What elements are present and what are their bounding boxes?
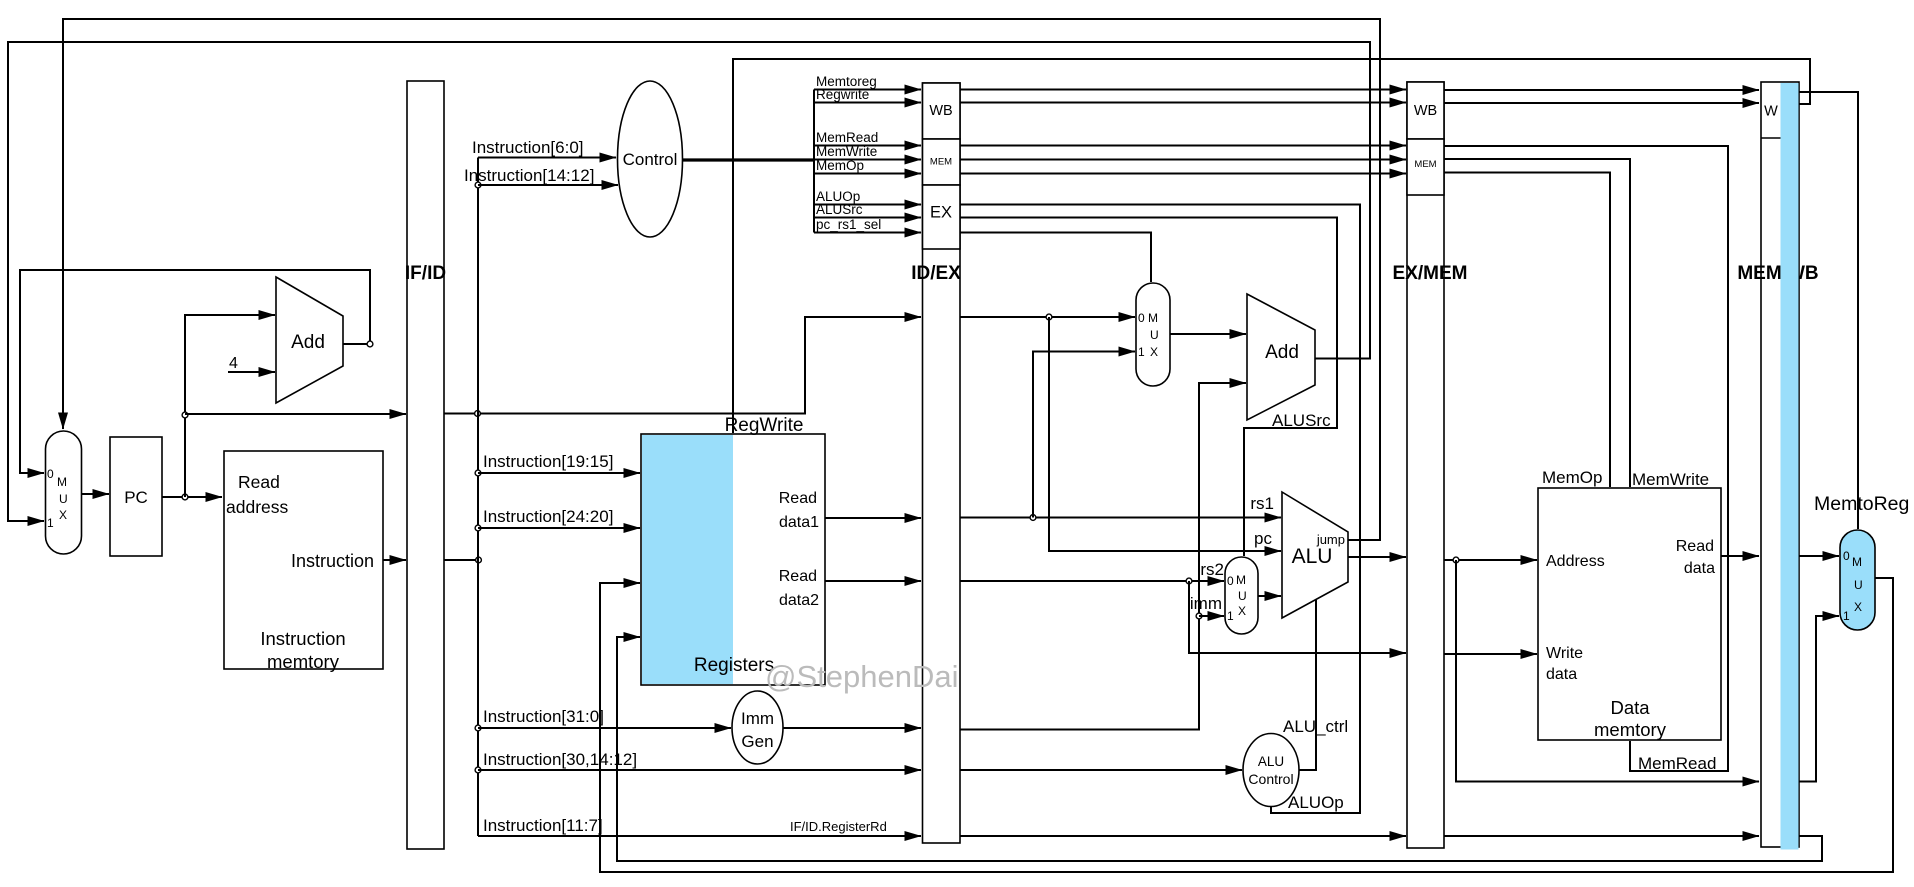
svg-text:Instruction: Instruction xyxy=(291,551,374,571)
control unit ALUControl xyxy=(1243,734,1299,807)
wire rs2 down to EX/MEM write data xyxy=(1189,581,1406,653)
wire PC+4 loop (Add output to PC mux input 0) xyxy=(20,270,370,473)
svg-text:IF/ID: IF/ID xyxy=(405,263,446,284)
wire Instruction[24:20] to Registers xyxy=(478,527,640,529)
svg-text:W: W xyxy=(1764,104,1778,120)
svg-text:Add: Add xyxy=(1265,342,1299,363)
mux PC-select (MUX1) xyxy=(46,431,82,554)
svg-text:ALU: ALU xyxy=(1292,545,1333,568)
wire MemRead control to data memory bottom xyxy=(1444,146,1728,771)
memory InstructionMemory xyxy=(224,451,383,669)
wire pc down to ALU xyxy=(1049,317,1281,551)
svg-text:ALUSrc: ALUSrc xyxy=(816,202,863,217)
wire instruction from IF/ID to bus xyxy=(444,559,478,561)
svg-text:EX/MEM: EX/MEM xyxy=(1393,263,1468,284)
svg-text:X: X xyxy=(1238,604,1246,618)
svg-text:Add: Add xyxy=(291,332,325,353)
wire write data to data memory xyxy=(1444,653,1537,655)
svg-text:WB: WB xyxy=(1414,103,1437,119)
svg-text:MemRead: MemRead xyxy=(816,130,878,145)
wire rd writeback xyxy=(617,637,1822,861)
svg-text:MEM: MEM xyxy=(1414,159,1436,170)
node bus tap 14:12 xyxy=(475,182,481,188)
svg-text:1: 1 xyxy=(1138,345,1145,359)
wire EX/MEM WB out2 to MEM/WB xyxy=(1444,102,1759,104)
wire branch-target feedback (Add output to PC mux input 1) xyxy=(8,42,1370,521)
wire Read data1 to ID/EX xyxy=(825,517,921,519)
svg-text:data2: data2 xyxy=(779,592,819,609)
node bus tap 31:0 xyxy=(475,725,481,731)
svg-text:Regwrite: Regwrite xyxy=(816,87,869,102)
svg-text:Instruction: Instruction xyxy=(260,628,345,649)
svg-text:ID/EX: ID/EX xyxy=(911,263,961,284)
memory DataMemory xyxy=(1538,488,1721,740)
wire ID/EX MEM out2 to EX/MEM xyxy=(960,159,1406,161)
node PC branch to IF/ID xyxy=(182,412,188,418)
svg-text:Data: Data xyxy=(1610,697,1650,718)
wire PC to IF/ID xyxy=(185,413,406,415)
svg-text:Instruction[31:0]: Instruction[31:0] xyxy=(483,707,604,726)
wire Instruction[6:0] to Control xyxy=(478,157,616,159)
svg-text:Read: Read xyxy=(1676,538,1714,555)
svg-text:memtory: memtory xyxy=(267,651,340,672)
wire MUX1 output to PC xyxy=(82,493,110,495)
svg-text:Read: Read xyxy=(779,568,817,585)
svg-text:MemWrite: MemWrite xyxy=(1632,470,1709,489)
svg-text:M: M xyxy=(1148,311,1158,325)
svg-text:memtory: memtory xyxy=(1594,719,1667,740)
svg-text:rs1: rs1 xyxy=(1250,494,1274,513)
svg-text:Read: Read xyxy=(779,490,817,507)
svg-text:X: X xyxy=(59,508,67,522)
wire PC up to Add1 xyxy=(185,315,275,497)
wire rs1 from ID/EX to ALU xyxy=(960,517,1281,519)
wire Control output bus xyxy=(683,158,815,161)
wire ImmGen output to ID/EX xyxy=(783,727,921,729)
svg-text:Write: Write xyxy=(1546,645,1583,662)
mux MemtoReg xyxy=(1840,530,1875,630)
svg-text:data: data xyxy=(1546,666,1577,683)
wire Instruction[14:12] to Control xyxy=(478,184,618,186)
wire ALU_ctrl to ALU xyxy=(1299,600,1316,770)
node rs1 junction xyxy=(1030,515,1036,521)
svg-text:0: 0 xyxy=(1843,549,1850,563)
svg-text:address: address xyxy=(226,497,289,517)
svg-text:M: M xyxy=(1236,573,1246,587)
svg-text:0: 0 xyxy=(1227,574,1234,588)
control unit Control xyxy=(618,81,683,237)
svg-text:MemWrite: MemWrite xyxy=(816,144,877,159)
node pc wire crossing instruction bus xyxy=(475,411,481,417)
svg-text:Instruction[6:0]: Instruction[6:0] xyxy=(472,138,584,157)
svg-text:Instruction[14:12]: Instruction[14:12] xyxy=(464,166,594,185)
wire Instruction[30,14:12] to ID/EX xyxy=(478,769,921,771)
node bus tap 19:15 xyxy=(475,470,481,476)
wire ALUSrc into ID/EX xyxy=(814,217,921,219)
wire Instruction[11:7] to ID/EX xyxy=(478,835,921,837)
mux rs2/imm select xyxy=(1225,557,1258,634)
node bus tap 30-14:12 xyxy=(475,767,481,773)
wire read data to MEM/WB xyxy=(1721,555,1759,557)
svg-text:Address: Address xyxy=(1546,553,1605,570)
wire pc_rs1_sel into ID/EX xyxy=(814,232,921,234)
svg-text:0: 0 xyxy=(1138,311,1145,325)
wire MemOp to data memory xyxy=(1444,173,1610,488)
wire Read data2 to ID/EX xyxy=(825,580,921,582)
wire read data to MemtoReg mux0 xyxy=(1799,555,1839,557)
section ID/EX WB box xyxy=(923,83,961,139)
wire constant 4 to Add1 xyxy=(228,371,275,373)
register ID/EX bar xyxy=(923,83,961,843)
svg-text:WB: WB xyxy=(929,103,952,119)
wire MemWrite xyxy=(814,159,921,161)
svg-text:0: 0 xyxy=(47,467,54,481)
svg-text:Control: Control xyxy=(623,150,678,169)
wire EX/MEM WB out1 to MEM/WB xyxy=(1444,89,1759,91)
fill MEM/WB cyan stripe xyxy=(1781,83,1799,850)
wire pc through IF/ID to ID/EX xyxy=(444,317,921,414)
svg-text:pc: pc xyxy=(1254,529,1272,548)
section ID/EX MEM box xyxy=(923,139,961,185)
svg-text:ALU_ctrl: ALU_ctrl xyxy=(1283,717,1348,736)
wire pc_rs1_sel to pc mux select xyxy=(960,233,1151,283)
node Add1 output corner xyxy=(367,341,373,347)
wire Instruction[19:15] to Registers xyxy=(478,472,640,474)
svg-text:PC: PC xyxy=(124,488,148,507)
wire MemWrite to data memory xyxy=(1444,159,1630,487)
svg-text:data: data xyxy=(1684,560,1715,577)
svg-text:EX: EX xyxy=(930,204,952,222)
register PC xyxy=(110,437,162,556)
svg-text:Instruction[24:20]: Instruction[24:20] xyxy=(483,507,613,526)
register MEM/WB bar xyxy=(1761,82,1799,847)
svg-text:Imm: Imm xyxy=(741,709,774,728)
wire funct to ALU Control xyxy=(960,769,1242,771)
section EX/MEM WB box xyxy=(1407,82,1444,139)
svg-text:Read: Read xyxy=(238,472,280,492)
svg-text:X: X xyxy=(1854,600,1862,614)
svg-text:U: U xyxy=(59,492,68,506)
svg-text:1: 1 xyxy=(1843,609,1850,623)
svg-text:MEM: MEM xyxy=(930,157,952,168)
register IF/ID bar xyxy=(407,81,444,849)
svg-text:MEM/WB: MEM/WB xyxy=(1737,263,1818,284)
svg-text:RegWrite: RegWrite xyxy=(725,415,804,436)
svg-text:rs2: rs2 xyxy=(1200,560,1224,579)
svg-text:U: U xyxy=(1150,328,1159,342)
node address junction xyxy=(1453,557,1459,563)
wire ID/EX WB out2 to EX/MEM xyxy=(960,102,1406,104)
wire MemOp xyxy=(814,173,921,175)
node instruction bus junction xyxy=(476,557,482,563)
node bus tap 24:20 xyxy=(475,525,481,531)
svg-text:U: U xyxy=(1854,578,1863,592)
alu ALU xyxy=(1282,492,1348,618)
svg-text:MemRead: MemRead xyxy=(1638,754,1716,773)
node imm junction xyxy=(1196,613,1202,619)
section EX/MEM MEM box xyxy=(1407,139,1444,195)
svg-text:Instruction[11:7]: Instruction[11:7] xyxy=(483,816,603,835)
wire mux output writeback xyxy=(600,578,1893,872)
wire ALUSrc to imm mux select xyxy=(960,218,1337,557)
wire pc mux output to Add2 xyxy=(1170,333,1246,335)
unit ImmGen xyxy=(732,691,783,764)
node PC output junction xyxy=(182,494,188,500)
wire instruction bus vertical xyxy=(477,158,479,837)
register EX/MEM bar xyxy=(1407,82,1444,848)
wire Memtoreg xyxy=(814,89,921,91)
wire jump-target feedback (ALU jump to PC mux top) xyxy=(63,19,1380,540)
adder Add1 (PC+4) xyxy=(276,277,343,403)
svg-text:data1: data1 xyxy=(779,514,819,531)
svg-text:Instruction[19:15]: Instruction[19:15] xyxy=(483,452,613,471)
node rs2 junction xyxy=(1186,578,1192,584)
wire rd from ID/EX to EX/MEM xyxy=(960,835,1406,837)
wire RegWrite feedback (MEM/WB to Registers) xyxy=(733,59,1810,433)
svg-text:pc_rs1_sel: pc_rs1_sel xyxy=(816,217,881,232)
svg-text:Control: Control xyxy=(1248,771,1293,787)
svg-text:imm: imm xyxy=(1190,594,1222,613)
wire ID/EX MEM out1 to EX/MEM xyxy=(960,145,1406,147)
wire ID/EX MEM out3 to EX/MEM xyxy=(960,173,1406,175)
adder Add2 (branch target) xyxy=(1247,294,1315,420)
mux pc/rs1 select xyxy=(1136,283,1170,386)
wire rd from EX/MEM to MEM/WB xyxy=(1444,835,1759,837)
node pc junction xyxy=(1046,314,1052,320)
svg-text:MemOp: MemOp xyxy=(1542,468,1602,487)
svg-text:4: 4 xyxy=(229,355,238,372)
wire ALUOp to ALU Control xyxy=(960,205,1360,814)
block Registers xyxy=(641,434,825,685)
svg-text:Instruction[30,14:12]: Instruction[30,14:12] xyxy=(483,750,637,769)
svg-text:U: U xyxy=(1238,589,1247,603)
svg-text:M: M xyxy=(57,475,67,489)
wire rs1 up to pc mux input1 xyxy=(1033,352,1135,518)
wire imm from ID/EX up to Add2 xyxy=(960,383,1246,730)
wire imm to imm mux input1 xyxy=(1199,615,1224,617)
svg-text:M: M xyxy=(1852,555,1862,569)
wire PC output to instruction memory xyxy=(162,496,222,498)
wire instruction memory to IF/ID xyxy=(383,559,406,561)
svg-text:MemOp: MemOp xyxy=(816,158,864,173)
wire ALU result bypass to MEM/WB xyxy=(1456,560,1759,782)
svg-text:ALU: ALU xyxy=(1258,754,1284,769)
svg-text:Gen: Gen xyxy=(741,732,773,751)
svg-text:ALUSrc: ALUSrc xyxy=(1272,411,1331,430)
wire Regwrite xyxy=(814,102,921,104)
svg-text:1: 1 xyxy=(47,516,54,530)
svg-text:MemtoReg: MemtoReg xyxy=(1814,493,1909,515)
wire control bus vertical xyxy=(813,90,815,233)
wire ALU result to EX/MEM xyxy=(1348,556,1406,558)
svg-text:Registers: Registers xyxy=(694,655,774,676)
section ID/EX EX box xyxy=(923,185,961,249)
fill Registers cyan left part xyxy=(642,435,733,684)
wire address to data memory xyxy=(1444,559,1537,561)
wire imm mux output to ALU xyxy=(1258,595,1281,597)
wire ALU result to MemtoReg mux1 xyxy=(1799,616,1839,782)
wire ALUOp into ID/EX xyxy=(814,204,921,206)
wire pc from ID/EX to pc mux input0 xyxy=(960,316,1135,318)
wire WB select down to MemtoReg mux xyxy=(1799,92,1858,529)
wire rs2 from ID/EX to imm mux input0 xyxy=(960,580,1224,582)
svg-text:X: X xyxy=(1150,345,1158,359)
svg-text:@StephenDai: @StephenDai xyxy=(765,659,958,694)
svg-text:ALUOp: ALUOp xyxy=(1288,793,1344,812)
svg-text:1: 1 xyxy=(1227,609,1234,623)
wire Instruction[31:0] to ImmGen xyxy=(478,727,731,729)
section MEM/WB W divider xyxy=(1761,137,1799,139)
svg-text:IF/ID.RegisterRd: IF/ID.RegisterRd xyxy=(790,819,887,834)
wire ID/EX WB out1 to EX/MEM xyxy=(960,89,1406,91)
wire MemRead xyxy=(814,145,921,147)
